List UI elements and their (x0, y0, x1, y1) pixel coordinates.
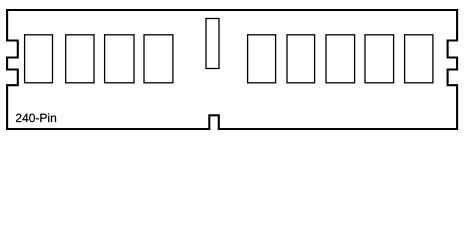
DRAM chip 2 (66, 35, 94, 83)
DRAM chip 3 (105, 35, 134, 83)
DRAM chip 8 (365, 35, 394, 83)
module outline (240-pin DIMM body: side clip notches, bottom key notch) (7, 10, 457, 129)
DRAM chip 1 (25, 35, 53, 83)
DRAM chip 6 (287, 35, 315, 83)
svg-text:240-Pin: 240-Pin (15, 111, 56, 125)
DRAM chip 9 (405, 35, 433, 83)
DRAM chip 5 (248, 35, 276, 83)
DRAM chip 4 (144, 35, 173, 83)
register/buffer chip (tall narrow center) (206, 19, 219, 69)
DRAM chip 7 (326, 35, 355, 83)
